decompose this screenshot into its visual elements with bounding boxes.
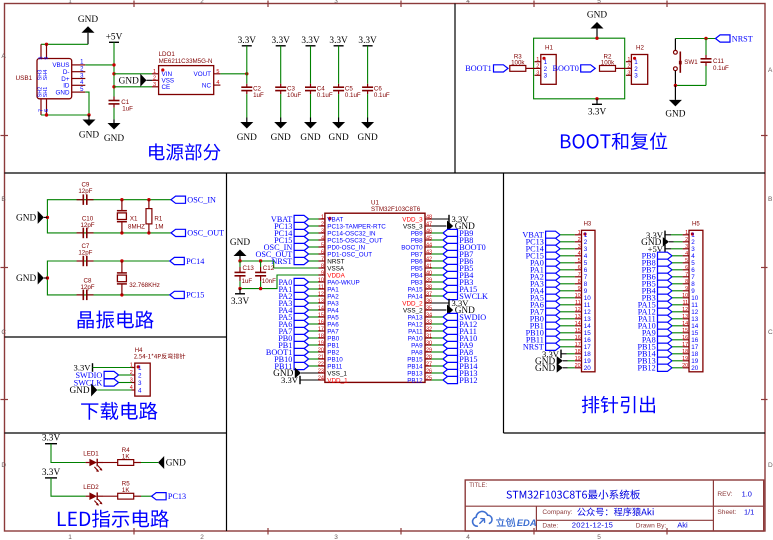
frame row letters (left) bbox=[1, 53, 6, 469]
svg-text:PA6: PA6 bbox=[327, 321, 339, 328]
svg-text:H1: H1 bbox=[545, 45, 553, 52]
svg-text:SW1: SW1 bbox=[684, 59, 698, 66]
svg-text:12: 12 bbox=[691, 309, 699, 316]
svg-text:4: 4 bbox=[466, 534, 470, 540]
net flag PB7 (U1 pin 43) bbox=[443, 250, 473, 259]
section title 下载电路 bbox=[81, 402, 157, 420]
svg-text:11: 11 bbox=[584, 302, 591, 309]
wire bbox=[560, 241, 575, 243]
svg-text:PB5: PB5 bbox=[411, 265, 423, 272]
resistor R3 100k bbox=[510, 53, 535, 71]
net flag PA1 (U1 pin 11) bbox=[278, 285, 308, 294]
svg-text:3.3V: 3.3V bbox=[281, 375, 299, 385]
svg-text:GND: GND bbox=[56, 89, 70, 96]
svg-text:12: 12 bbox=[318, 291, 324, 297]
svg-text:1: 1 bbox=[536, 57, 539, 63]
svg-text:4: 4 bbox=[466, 0, 470, 5]
svg-text:1: 1 bbox=[685, 230, 688, 236]
svg-text:PB14: PB14 bbox=[407, 363, 423, 370]
svg-text:40: 40 bbox=[426, 270, 432, 276]
net flag PB10 (H3 pin 15) bbox=[526, 329, 561, 338]
net flag PB11 (U1 pin 22) bbox=[274, 362, 308, 371]
svg-text:3.3V: 3.3V bbox=[588, 107, 607, 117]
ground GND (U1 VSS_1) bbox=[273, 368, 318, 380]
junction VOUT bbox=[245, 72, 248, 75]
svg-text:GND: GND bbox=[119, 77, 139, 87]
power 3.3V (H3 pin 18) bbox=[542, 349, 575, 359]
svg-text:1K: 1K bbox=[122, 487, 130, 494]
svg-text:PA14: PA14 bbox=[408, 293, 423, 300]
svg-text:GND: GND bbox=[104, 134, 124, 144]
svg-text:PB9: PB9 bbox=[411, 230, 423, 237]
svg-text:3: 3 bbox=[321, 228, 324, 234]
svg-text:REV:: REV: bbox=[717, 491, 732, 498]
svg-text:Drawn By:: Drawn By: bbox=[636, 522, 667, 529]
svg-text:14: 14 bbox=[691, 323, 699, 330]
net flag PB5 (U1 pin 41) bbox=[443, 264, 473, 273]
svg-text:12: 12 bbox=[584, 309, 592, 316]
wire bbox=[432, 379, 444, 381]
net flag PB4 (H5 pin 9) bbox=[642, 287, 672, 296]
LED LED1 bbox=[83, 450, 103, 472]
svg-text:OSC_IN: OSC_IN bbox=[187, 196, 216, 205]
net flag PB12 (U1 pin 25) bbox=[443, 376, 478, 385]
wire bbox=[560, 290, 575, 292]
svg-text:7: 7 bbox=[321, 256, 324, 262]
ground GND (H5 pin 2) bbox=[641, 237, 682, 248]
svg-text:ME6211C33M5G-N: ME6211C33M5G-N bbox=[159, 58, 213, 65]
svg-text:BOOT0: BOOT0 bbox=[553, 64, 579, 73]
wire USB shield to GND bbox=[41, 43, 88, 45]
svg-text:34: 34 bbox=[426, 312, 432, 318]
power 3.3V (VDDA filter) bbox=[231, 289, 250, 307]
svg-text:15: 15 bbox=[691, 330, 699, 337]
svg-text:PD0-OSC_IN: PD0-OSC_IN bbox=[327, 244, 365, 251]
power 3.3V (U1 VDD_1) bbox=[281, 375, 318, 385]
svg-text:STM32F103C8T6: STM32F103C8T6 bbox=[371, 206, 421, 213]
svg-text:C: C bbox=[768, 329, 773, 336]
ground GND (H3 pin 20) bbox=[535, 363, 575, 374]
svg-text:19: 19 bbox=[691, 358, 699, 365]
net flag PB9 (U1 pin 46) bbox=[443, 229, 473, 238]
wire bbox=[560, 304, 575, 306]
svg-text:8: 8 bbox=[578, 279, 581, 285]
ground GND (below C2) bbox=[237, 118, 257, 144]
svg-text:H2: H2 bbox=[636, 45, 644, 52]
svg-text:100k: 100k bbox=[511, 60, 525, 67]
wire bbox=[560, 248, 575, 250]
junction bbox=[120, 259, 123, 262]
svg-text:B: B bbox=[1, 196, 5, 203]
net flag PB0 (H3 pin 13) bbox=[530, 315, 560, 324]
svg-text:4: 4 bbox=[584, 253, 588, 260]
svg-text:1: 1 bbox=[584, 232, 588, 239]
svg-text:19: 19 bbox=[584, 358, 592, 365]
svg-text:19: 19 bbox=[682, 356, 688, 362]
svg-text:3: 3 bbox=[334, 0, 338, 5]
svg-text:20: 20 bbox=[691, 365, 699, 372]
svg-text:11: 11 bbox=[691, 302, 698, 309]
wire bbox=[309, 337, 319, 339]
svg-text:46: 46 bbox=[426, 228, 432, 234]
wire bbox=[309, 232, 319, 234]
svg-text:0.1uF: 0.1uF bbox=[317, 92, 333, 99]
power 3.3V (above C2) bbox=[238, 36, 257, 46]
net flag PB10 (U1 pin 21) bbox=[274, 355, 309, 364]
capacitor C12 10nF bbox=[255, 261, 276, 289]
net flag BOOT1 (U1 pin 20) bbox=[266, 348, 309, 357]
svg-text:19: 19 bbox=[318, 340, 324, 346]
svg-text:PB3: PB3 bbox=[411, 279, 423, 286]
junction bbox=[120, 293, 123, 296]
net flag PA3 (U1 pin 13) bbox=[278, 299, 308, 308]
net flag PC15 bbox=[170, 291, 205, 300]
svg-text:1: 1 bbox=[627, 57, 630, 63]
section title 晶振电路 bbox=[78, 311, 154, 329]
wire ground rail under USB bbox=[41, 114, 89, 116]
svg-text:2: 2 bbox=[138, 372, 142, 379]
svg-text:PA12: PA12 bbox=[408, 321, 423, 328]
svg-text:48: 48 bbox=[426, 214, 432, 220]
svg-text:Date:: Date: bbox=[542, 522, 558, 529]
frame column numbers (bottom) bbox=[68, 534, 601, 540]
net flag PA7 (U1 pin 17) bbox=[278, 327, 308, 336]
net flag OSC_OUT bbox=[171, 229, 224, 238]
svg-text:12pF: 12pF bbox=[78, 249, 92, 256]
wire to CE bbox=[114, 86, 152, 88]
svg-text:C: C bbox=[1, 329, 6, 336]
net flag PA15 (U1 pin 38) bbox=[443, 285, 477, 294]
wire bbox=[432, 260, 444, 262]
svg-text:7: 7 bbox=[691, 274, 695, 281]
ground GND (U1 pin 35) bbox=[432, 305, 476, 317]
net flag PB5 (H5 pin 8) bbox=[642, 280, 672, 289]
wire USB GND pin to ground rail bbox=[85, 92, 89, 115]
ground GND (below SW1) bbox=[665, 85, 685, 119]
wire VDDA rail bbox=[240, 275, 319, 289]
svg-text:11: 11 bbox=[318, 284, 324, 290]
wire bbox=[432, 288, 444, 290]
svg-text:14: 14 bbox=[682, 321, 688, 327]
junction bbox=[147, 198, 150, 201]
svg-text:17: 17 bbox=[584, 344, 592, 351]
svg-text:4: 4 bbox=[216, 80, 219, 86]
svg-text:9: 9 bbox=[578, 286, 581, 292]
USB connector USB1 bbox=[16, 44, 86, 115]
svg-text:EDA: EDA bbox=[517, 517, 537, 528]
svg-text:2: 2 bbox=[627, 64, 630, 70]
svg-text:3.3V: 3.3V bbox=[272, 36, 291, 46]
svg-text:1uF: 1uF bbox=[253, 92, 264, 99]
wire bbox=[309, 225, 319, 227]
wire bbox=[560, 234, 575, 236]
net flag PB14 (H5 pin 18) bbox=[637, 350, 672, 359]
svg-text:D: D bbox=[1, 462, 6, 469]
wire C6 to ground bbox=[367, 94, 369, 117]
svg-text:Sheet:: Sheet: bbox=[717, 509, 736, 516]
capacitor C5 0.1uF bbox=[333, 84, 361, 99]
wire bbox=[560, 332, 575, 334]
svg-text:10: 10 bbox=[318, 277, 324, 283]
svg-text:PC15: PC15 bbox=[186, 291, 204, 300]
header H5 bbox=[682, 222, 703, 373]
net flag BOOT0 (U1 pin 44) bbox=[443, 243, 486, 252]
ground GND (below C6) bbox=[358, 118, 378, 144]
svg-text:14: 14 bbox=[318, 305, 324, 311]
svg-text:21: 21 bbox=[318, 354, 324, 360]
wire bbox=[309, 323, 319, 325]
svg-text:GND: GND bbox=[300, 133, 320, 143]
wire bbox=[432, 274, 444, 276]
svg-text:PB8: PB8 bbox=[411, 237, 423, 244]
svg-text:10: 10 bbox=[691, 295, 699, 302]
wire bbox=[560, 297, 575, 299]
svg-text:15: 15 bbox=[318, 312, 324, 318]
svg-text:3: 3 bbox=[536, 71, 539, 77]
wire bbox=[432, 246, 444, 248]
wire bbox=[309, 295, 319, 297]
svg-text:VDD_3: VDD_3 bbox=[402, 216, 423, 223]
svg-text:1.0: 1.0 bbox=[742, 489, 752, 498]
net flag PA0 (U1 pin 10) bbox=[278, 278, 308, 287]
net flag PC13 (H3 pin 2) bbox=[526, 238, 561, 247]
net flag PB8 (H5 pin 5) bbox=[642, 259, 672, 268]
svg-text:14: 14 bbox=[575, 321, 581, 327]
power 3.3V (above C6) bbox=[358, 36, 377, 46]
wire bbox=[560, 339, 575, 341]
wire bbox=[432, 323, 444, 325]
svg-text:2: 2 bbox=[584, 239, 588, 246]
svg-text:PA7: PA7 bbox=[327, 328, 339, 335]
svg-text:PB0: PB0 bbox=[327, 335, 339, 342]
wire bbox=[432, 372, 444, 374]
svg-text:PC13-TAMPER-RTC: PC13-TAMPER-RTC bbox=[327, 223, 386, 230]
svg-text:PC14-OSC32_IN: PC14-OSC32_IN bbox=[327, 230, 376, 237]
wire bbox=[309, 365, 319, 367]
svg-text:1: 1 bbox=[578, 230, 581, 236]
svg-text:PA4: PA4 bbox=[327, 307, 339, 314]
ground GND (H4 pin4) bbox=[69, 384, 97, 397]
net flag PB6 (H5 pin 7) bbox=[642, 273, 672, 282]
net flag PA2 (U1 pin 12) bbox=[278, 292, 308, 301]
wire 3.3V to C5 bbox=[338, 46, 340, 84]
svg-text:12pF: 12pF bbox=[80, 284, 94, 291]
net flag PA4 (H3 pin 9) bbox=[530, 287, 560, 296]
svg-text:17: 17 bbox=[682, 342, 688, 348]
svg-text:2: 2 bbox=[200, 0, 204, 5]
svg-text:13: 13 bbox=[318, 298, 324, 304]
capacitor C11 0.1uF bbox=[701, 55, 730, 72]
svg-text:18: 18 bbox=[691, 351, 699, 358]
svg-text:39: 39 bbox=[426, 277, 432, 283]
svg-text:2021-12-15: 2021-12-15 bbox=[572, 520, 613, 529]
wire BOOT loop bbox=[534, 38, 625, 99]
wire bbox=[309, 302, 319, 304]
wire bbox=[560, 262, 575, 264]
wire bbox=[309, 351, 319, 353]
svg-text:16: 16 bbox=[575, 335, 581, 341]
svg-text:6: 6 bbox=[578, 265, 581, 271]
ground GND (USB shield) bbox=[78, 15, 98, 45]
net flag OSC_OUT (U1 pin 6) bbox=[255, 250, 308, 259]
junction ground rail right bbox=[87, 113, 90, 116]
wire bbox=[560, 283, 575, 285]
wire bbox=[672, 276, 683, 278]
svg-text:12pF: 12pF bbox=[78, 188, 92, 195]
wire bbox=[672, 325, 683, 327]
svg-text:10: 10 bbox=[584, 295, 592, 302]
svg-text:6: 6 bbox=[321, 249, 324, 255]
svg-text:20: 20 bbox=[318, 347, 324, 353]
net flag PC14 bbox=[170, 257, 205, 266]
net flag PA6 (U1 pin 16) bbox=[278, 320, 308, 329]
junction C13 top bbox=[238, 259, 241, 262]
svg-text:1: 1 bbox=[691, 232, 695, 239]
svg-text:43: 43 bbox=[426, 249, 432, 255]
svg-text:5: 5 bbox=[597, 534, 601, 540]
svg-text:PC14: PC14 bbox=[186, 257, 204, 266]
svg-text:3.3V: 3.3V bbox=[231, 297, 250, 307]
junction BOOT loop bottom bbox=[595, 97, 598, 100]
wire bbox=[672, 255, 683, 257]
power 3.3V (LED1) bbox=[42, 434, 61, 444]
ground GND (below C5) bbox=[329, 118, 349, 144]
svg-text:7: 7 bbox=[685, 272, 688, 278]
wire bbox=[560, 255, 575, 257]
svg-text:PA2: PA2 bbox=[327, 293, 339, 300]
svg-text:44: 44 bbox=[426, 242, 432, 248]
svg-text:12: 12 bbox=[575, 307, 581, 313]
wire R4 to GND bbox=[141, 462, 158, 464]
wire bbox=[432, 232, 444, 234]
wire bbox=[560, 318, 575, 320]
svg-text:3.3V: 3.3V bbox=[42, 434, 61, 444]
svg-text:PA9: PA9 bbox=[411, 342, 423, 349]
net flag PC13 bbox=[152, 492, 187, 501]
svg-text:2: 2 bbox=[321, 221, 324, 227]
svg-text:6: 6 bbox=[685, 265, 688, 271]
svg-text:VDDA: VDDA bbox=[327, 272, 345, 279]
wire bbox=[432, 351, 444, 353]
svg-text:GND: GND bbox=[16, 274, 36, 284]
svg-text:GND: GND bbox=[166, 459, 186, 469]
net flag PB15 (U1 pin 28) bbox=[443, 355, 478, 364]
wire bbox=[432, 330, 444, 332]
resistor R1 1M bbox=[146, 200, 164, 233]
svg-text:22: 22 bbox=[318, 361, 324, 367]
section title 排针引出 bbox=[582, 396, 655, 414]
svg-text:1: 1 bbox=[68, 534, 72, 540]
wire bbox=[672, 318, 683, 320]
svg-text:PD1-OSC_OUT: PD1-OSC_OUT bbox=[327, 251, 372, 258]
svg-text:3: 3 bbox=[138, 380, 142, 387]
wire bbox=[432, 267, 444, 269]
net flag PA12 (U1 pin 33) bbox=[443, 320, 477, 329]
svg-text:R1: R1 bbox=[154, 216, 162, 223]
wire 3.3V to H4.1 bbox=[93, 367, 132, 369]
wire +5V rail bbox=[113, 42, 115, 96]
svg-text:3: 3 bbox=[685, 244, 688, 250]
ground GND (U1 pin 47) bbox=[432, 221, 476, 233]
svg-text:VSS_2: VSS_2 bbox=[403, 307, 423, 314]
junction C13 bottom bbox=[238, 287, 241, 290]
net flag PC15 (U1 pin 4) bbox=[274, 236, 309, 245]
svg-text:+5V: +5V bbox=[106, 32, 123, 42]
net flag PA10 (H5 pin 14) bbox=[638, 322, 672, 331]
wire bbox=[309, 218, 319, 220]
net flag NRST (H3 pin 17) bbox=[523, 343, 560, 352]
ground GND (BOOT top) bbox=[587, 11, 607, 39]
svg-text:3.3V: 3.3V bbox=[329, 36, 348, 46]
svg-text:32: 32 bbox=[426, 326, 432, 332]
logo 立创EDA bbox=[473, 511, 537, 528]
net flag PA12 (H5 pin 12) bbox=[638, 308, 672, 317]
svg-text:18: 18 bbox=[318, 333, 324, 339]
svg-text:42: 42 bbox=[426, 256, 432, 262]
svg-text:NC: NC bbox=[202, 82, 212, 89]
svg-text:9: 9 bbox=[691, 288, 695, 295]
svg-text:16: 16 bbox=[691, 337, 699, 344]
wire bbox=[432, 316, 444, 318]
svg-text:GND: GND bbox=[230, 238, 250, 248]
svg-text:PA13: PA13 bbox=[408, 314, 423, 321]
power +5V (H5 pin 3) bbox=[648, 244, 683, 254]
svg-text:7: 7 bbox=[578, 272, 581, 278]
wire SWDIO to H4.2 bbox=[119, 374, 132, 376]
power 3.3V (BOOT bottom) bbox=[588, 99, 607, 118]
wire 3.3V to LED2 bbox=[51, 478, 86, 496]
svg-text:8: 8 bbox=[685, 279, 688, 285]
net flag NRST bbox=[716, 34, 753, 43]
svg-text:4: 4 bbox=[138, 387, 142, 394]
wire crystal group 2 bbox=[47, 261, 169, 295]
svg-text:29: 29 bbox=[426, 347, 432, 353]
svg-text:20: 20 bbox=[575, 363, 581, 369]
svg-text:PB12: PB12 bbox=[637, 364, 655, 373]
net flag PB1 (U1 pin 19) bbox=[278, 341, 308, 350]
svg-text:Aki: Aki bbox=[677, 520, 688, 529]
svg-text:11: 11 bbox=[682, 300, 688, 306]
wire crystal group 1 bbox=[47, 200, 171, 233]
net flag OSC_IN bbox=[171, 196, 216, 205]
net flag PC14 (H3 pin 3) bbox=[526, 245, 561, 254]
wire bbox=[432, 358, 444, 360]
net flag PA8 (U1 pin 29) bbox=[443, 348, 473, 357]
svg-text:3.3V: 3.3V bbox=[358, 36, 377, 46]
net flag PA5 (H3 pin 10) bbox=[530, 294, 560, 303]
svg-text:VBAT: VBAT bbox=[327, 216, 343, 223]
svg-text:3: 3 bbox=[634, 73, 638, 80]
svg-text:D: D bbox=[768, 462, 773, 469]
svg-text:PB13: PB13 bbox=[407, 370, 423, 377]
svg-text:19: 19 bbox=[575, 356, 581, 362]
wire bbox=[672, 297, 683, 299]
regulator LDO1 ME6211C33M5G-N bbox=[152, 51, 220, 95]
power 3.3V (U1 pin 36) bbox=[432, 298, 470, 308]
net flag PB0 (U1 pin 18) bbox=[278, 334, 308, 343]
svg-text:20: 20 bbox=[584, 365, 592, 372]
net flag PA11 (H5 pin 13) bbox=[638, 315, 672, 324]
svg-text:VSSA: VSSA bbox=[327, 265, 345, 272]
wire bbox=[432, 365, 444, 367]
svg-text:9: 9 bbox=[321, 270, 324, 276]
title block frame bbox=[465, 480, 764, 531]
wire R5 to PC13 bbox=[141, 495, 152, 497]
section title 电源部分 bbox=[149, 143, 220, 160]
svg-text:1uF: 1uF bbox=[122, 106, 133, 113]
capacitor C7 12pF bbox=[77, 243, 94, 266]
svg-text:0.1uF: 0.1uF bbox=[713, 65, 729, 72]
